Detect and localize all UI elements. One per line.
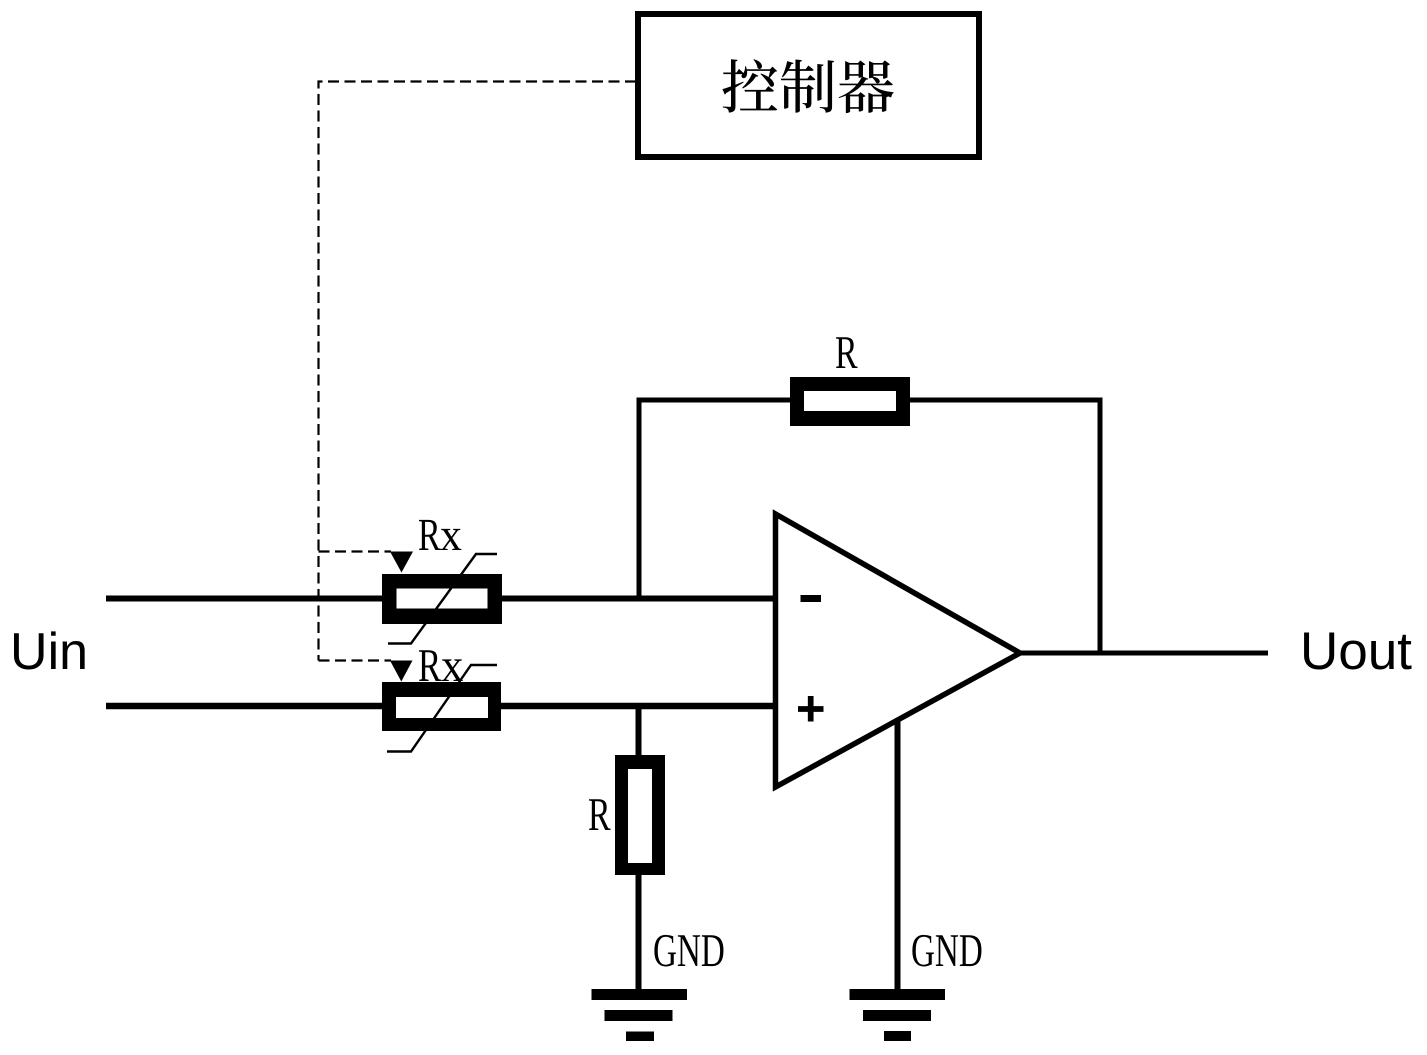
resistor R (to ground) [615, 755, 665, 875]
label Uin [14, 631, 85, 669]
ground symbol right [850, 989, 946, 1041]
wire: Uin lower line to non-inverting input [106, 703, 777, 710]
controller box [638, 14, 979, 157]
control arrow into Rx2 [390, 661, 413, 682]
ground symbol left [592, 989, 688, 1041]
resistor R (feedback) [790, 377, 910, 426]
wire: op-amp to ground [895, 721, 901, 990]
wire: feedback loop (left vertical, top, right vertical) [639, 400, 1100, 655]
dashed control branch to Rx2 [319, 659, 392, 661]
op-amp U1 [776, 514, 1021, 787]
op-amp plus input label [798, 696, 824, 722]
label R (feedback) [836, 337, 858, 368]
dashed control branch to Rx1 [319, 550, 392, 552]
wire: output [1015, 651, 1268, 656]
label Rx1 [419, 520, 441, 550]
resistor Rx2 (variable) [382, 665, 501, 752]
label Rx2 [419, 650, 441, 681]
dashed control wire from controller to Rx resistors [319, 82, 637, 661]
label GND right [912, 935, 981, 967]
wire: Uin upper line to inverting input [106, 596, 777, 602]
wire: non-inverting node down to resistor R [636, 706, 642, 757]
label GND left [654, 935, 723, 967]
wire: resistor R to ground [636, 873, 642, 990]
op-amp minus input label [801, 595, 822, 602]
resistor Rx1 (variable) [382, 554, 502, 644]
label R (ground resistor) [589, 799, 611, 830]
control arrow into Rx1 [390, 552, 413, 573]
label Uout [1304, 633, 1411, 670]
controller label 控制器 [722, 59, 893, 113]
